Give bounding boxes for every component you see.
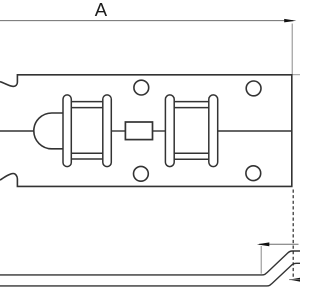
- screw hole bottom right: [246, 166, 261, 181]
- screw hole top left: [134, 80, 149, 95]
- arrowhead of dimension A: [284, 19, 296, 23]
- right guide bracket right capsule: [209, 95, 218, 167]
- svg-text:A: A: [95, 0, 108, 20]
- knob block: [125, 122, 152, 140]
- dashed projection line from plate right edge: [292, 190, 294, 278]
- dimension line A: [0, 20, 293, 22]
- left guide bracket bottom band: [66, 152, 106, 154]
- bolt rod segment between left bracket and knob: [111, 130, 125, 132]
- bottom right dimension arrowhead: [289, 278, 300, 282]
- left guide bracket top band: [66, 101, 106, 103]
- screw hole top right: [246, 81, 261, 96]
- bend dimension extension line: [260, 246, 262, 274]
- right guide bracket top band: [170, 101, 212, 103]
- side view top contour: [0, 251, 300, 275]
- plate outline with wavy break at left: [0, 75, 292, 187]
- bolt rod right segment: [218, 130, 292, 132]
- side view bottom contour: [0, 263, 300, 286]
- left guide bracket right capsule: [103, 95, 112, 167]
- extension line right of dimension A: [291, 24, 293, 75]
- right guide bracket left capsule: [165, 95, 174, 167]
- left guide bracket left capsule: [63, 95, 71, 167]
- bolt head (D shape): [34, 113, 66, 149]
- screw hole bottom left: [134, 166, 149, 181]
- bolt rod segment between knob and right bracket: [153, 130, 166, 132]
- bolt rod left segment: [0, 130, 36, 132]
- right guide bracket bottom band: [170, 152, 212, 154]
- bend dimension line: [259, 243, 299, 245]
- bend dimension arrowhead: [257, 242, 269, 246]
- faint extension line at plate top right corner: [292, 74, 300, 76]
